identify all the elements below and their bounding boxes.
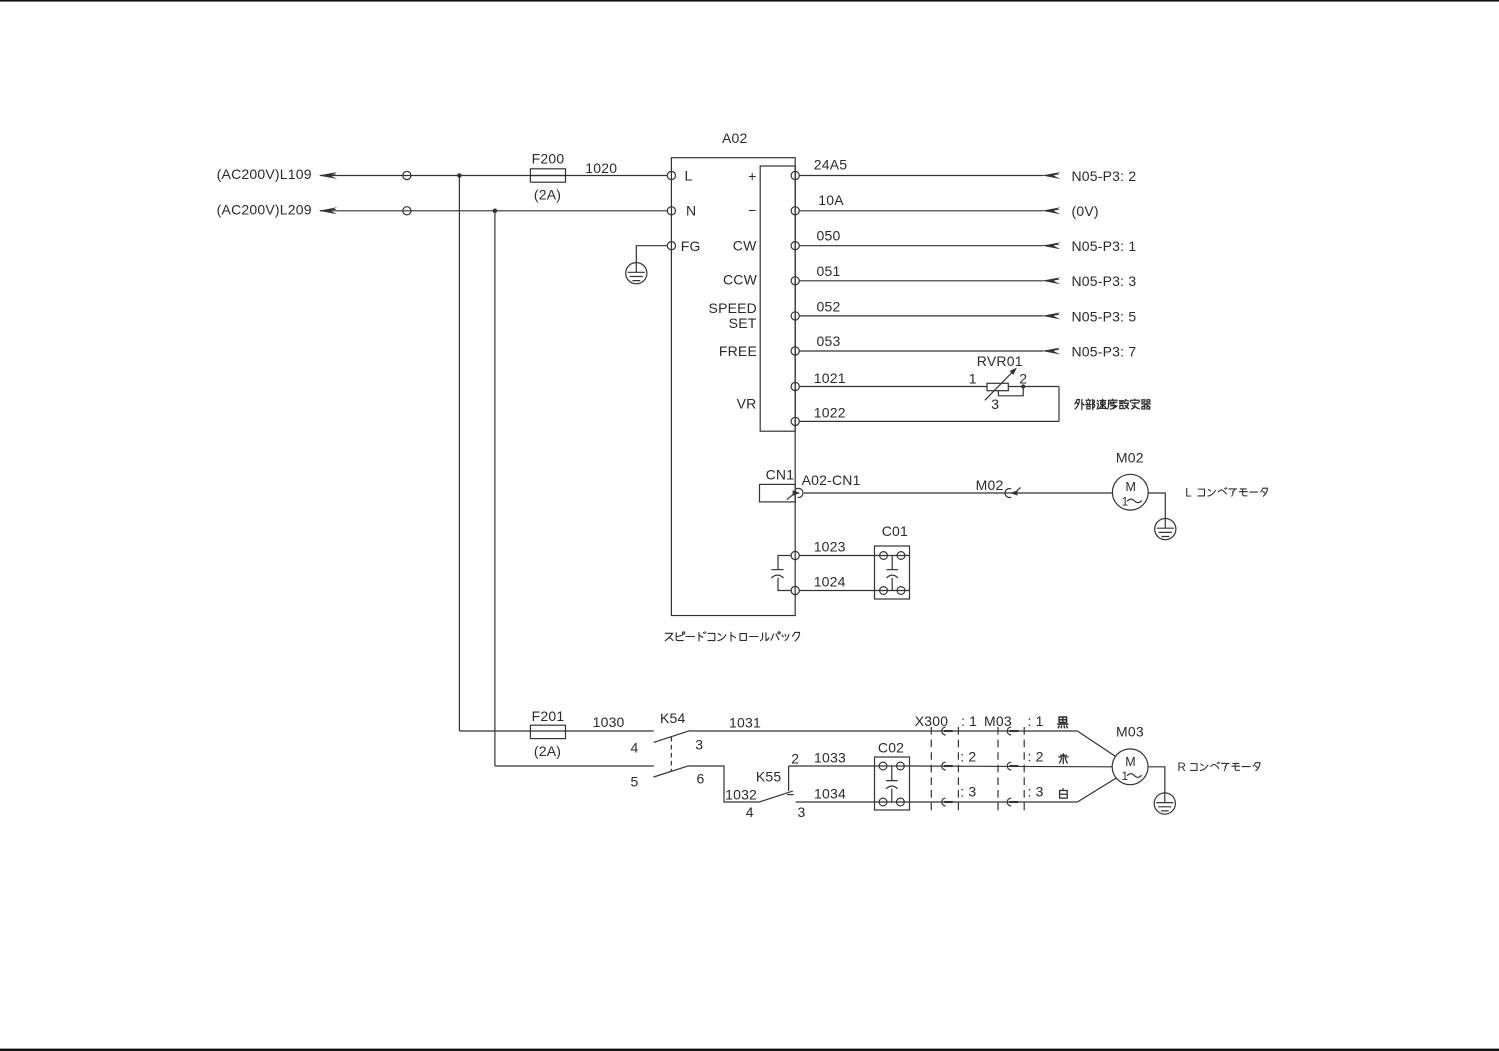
pin 053 (791, 333, 840, 355)
svg-text:L: L (685, 168, 693, 184)
svg-text:3: 3 (991, 396, 999, 412)
junction on L209 (493, 209, 498, 214)
relay contact K54 pole 5-6 (631, 766, 705, 790)
svg-text:051: 051 (817, 263, 841, 279)
svg-text:1020: 1020 (585, 160, 617, 176)
wire 1021 (799, 386, 987, 388)
svg-text:050: 050 (817, 228, 841, 244)
svg-text:SPEED: SPEED (709, 300, 757, 316)
wire 1022 (799, 420, 1059, 422)
svg-text:1021: 1021 (814, 370, 846, 386)
svg-text:VR: VR (737, 396, 757, 412)
pin N (667, 203, 696, 219)
svg-text:CN1: CN1 (766, 467, 795, 483)
svg-text:N05-P3: 1: N05-P3: 1 (1072, 238, 1137, 254)
capacitor C02 (875, 740, 910, 810)
relay contact K55 (746, 751, 806, 821)
connector pin M03:3 (1007, 798, 1018, 806)
svg-text:N05-P3: 2: N05-P3: 2 (1072, 168, 1137, 184)
ground at FG (626, 263, 647, 284)
svg-text:SET: SET (729, 315, 757, 331)
label SPEED SET (709, 300, 757, 331)
svg-text:R: R (1178, 762, 1186, 774)
connector plug symbol at CN1 (787, 488, 803, 499)
svg-text:(AC200V)L109: (AC200V)L109 (217, 166, 312, 182)
svg-text:1032: 1032 (725, 787, 757, 803)
pin 1021 (791, 370, 846, 391)
svg-text:K55: K55 (756, 769, 782, 785)
svg-text:FREE: FREE (719, 343, 757, 359)
connector CN1 (760, 467, 796, 502)
junction on L109 (457, 173, 462, 178)
wire L209 (320, 210, 667, 212)
svg-text:(AC200V)L209: (AC200V)L209 (217, 202, 312, 218)
svg-text:1024: 1024 (814, 573, 846, 589)
label external speed setter (kanji) (1075, 399, 1151, 409)
svg-text:24A5: 24A5 (814, 157, 848, 173)
svg-text:6: 6 (697, 770, 705, 786)
wire 1024 (799, 590, 874, 592)
connector pin M03:2 (1007, 762, 1018, 770)
wire 1033 to motor (910, 765, 1113, 768)
wire pot pin2 to right (1008, 386, 1059, 388)
wire 050 (799, 242, 1060, 249)
svg-text:10A: 10A (818, 192, 844, 208)
svg-text:RVR01: RVR01 (977, 353, 1023, 369)
wire 052 (799, 312, 1060, 319)
fuse F201 (530, 708, 565, 759)
wire right vertical 1021 to 1022 (1058, 387, 1060, 422)
pin 050 (791, 228, 840, 250)
svg-text:5: 5 (631, 773, 639, 789)
svg-text:2: 2 (791, 751, 799, 767)
node (AC200V)L209 (217, 202, 338, 218)
wire vertical from L209 junction down to K54 row (494, 211, 496, 766)
svg-text:M: M (1125, 480, 1135, 494)
svg-text:C02: C02 (878, 740, 904, 756)
mechanical link K54 (dashed) (670, 737, 672, 771)
svg-text:K54: K54 (660, 710, 686, 726)
svg-text:−: − (748, 202, 756, 218)
wire diagonal 1034 into motor (1077, 778, 1116, 802)
svg-text:3: 3 (798, 804, 806, 820)
label L conveyor motor (1185, 487, 1267, 499)
svg-text:M02: M02 (1116, 449, 1144, 465)
capacitor inside A02 (771, 556, 791, 591)
svg-text:3: 3 (695, 736, 703, 752)
wiper jumper wire (998, 389, 1023, 396)
wire 1031 (690, 730, 1077, 732)
connector pin X300:1 (942, 727, 953, 735)
svg-text:M02: M02 (976, 477, 1004, 493)
svg-text:1: 1 (1122, 771, 1128, 783)
wire 1033 (789, 765, 875, 767)
svg-text:: 2: : 2 (1028, 749, 1044, 765)
svg-text:2: 2 (1019, 370, 1027, 386)
wire color label black (1058, 717, 1068, 728)
pin 1024 (791, 573, 846, 594)
svg-text:A02: A02 (722, 130, 748, 146)
connector X300 dashed boundary right (957, 727, 959, 813)
wire diagonal 1031 into motor (1077, 731, 1115, 756)
svg-text:(2A): (2A) (534, 186, 561, 202)
svg-text:+: + (748, 168, 756, 184)
svg-text:M03: M03 (984, 713, 1012, 729)
connector symbol mid M02 wire (1005, 487, 1021, 497)
svg-text:052: 052 (817, 299, 841, 315)
motor M03 (1112, 724, 1148, 785)
wire 1030 left segment (459, 730, 530, 732)
svg-text:CW: CW (733, 238, 757, 254)
ground at M02 (1155, 519, 1176, 540)
svg-text:N05-P3: 3: N05-P3: 3 (1072, 273, 1137, 289)
terminal circle on L109 (403, 171, 411, 179)
wire 10A (799, 207, 1060, 214)
svg-text:4: 4 (746, 804, 754, 820)
label R conveyor motor (1178, 762, 1260, 774)
pin L (667, 168, 692, 184)
connector X300 dashed boundary left (930, 727, 932, 813)
svg-text:N: N (686, 203, 696, 219)
wire 1023 (799, 555, 874, 557)
wire vertical from L109 junction down to F201 row (458, 176, 460, 732)
relay contact K54 pole 4-3 (631, 710, 704, 756)
op-amp A02 outer box (671, 158, 795, 616)
connector M03 dashed boundary right (1023, 727, 1025, 813)
fuse F200 (530, 150, 565, 202)
junction at pot pin2 (1021, 384, 1025, 388)
potentiometer RVR01 (969, 353, 1027, 412)
pin 1023 (791, 538, 846, 559)
svg-text:1031: 1031 (729, 715, 761, 731)
svg-text:M03: M03 (1116, 724, 1144, 740)
pin 052 (791, 299, 840, 321)
pin 1022 (791, 405, 846, 426)
svg-text:1: 1 (1122, 496, 1128, 508)
svg-text:X300: X300 (915, 713, 949, 729)
A02 inner terminal box (760, 166, 795, 431)
wire color label white (1060, 789, 1068, 799)
svg-text:(2A): (2A) (534, 743, 561, 759)
svg-text:053: 053 (817, 333, 841, 349)
pin 051 (791, 263, 840, 285)
page bottom border (0, 1049, 1499, 1051)
wire M02 motor to ground (1148, 493, 1165, 519)
svg-text:F201: F201 (532, 708, 565, 724)
wire FG to ground (636, 246, 667, 263)
page top border (0, 0, 1499, 2)
connector pin M03:1 (1007, 727, 1018, 735)
wire 1030 to K54 (566, 730, 654, 732)
wire 053 (799, 348, 1060, 355)
pin 24A5 (791, 157, 847, 180)
wire color label red (1059, 754, 1068, 764)
pin FG (667, 238, 700, 254)
wire 24A5 (799, 172, 1060, 179)
capacitor C01 (875, 523, 910, 599)
wire K54-6 jog down to 1032 (689, 766, 759, 802)
wire M02 (804, 492, 1112, 494)
connector pin X300:3 (942, 798, 953, 806)
connector M03 dashed boundary left (997, 727, 999, 813)
terminal circle on L209 (403, 207, 411, 215)
svg-text:1033: 1033 (814, 749, 846, 765)
svg-text:4: 4 (631, 740, 639, 756)
svg-text:1034: 1034 (814, 786, 846, 802)
wire 1034 (796, 801, 875, 803)
svg-text:L: L (1185, 487, 1192, 499)
wire K54 row2 left (495, 765, 654, 767)
svg-text:: 1: : 1 (961, 713, 977, 729)
wire 1034 to connector area (910, 801, 1078, 803)
svg-text:1022: 1022 (814, 405, 846, 421)
wire 051 (799, 277, 1060, 284)
svg-text:F200: F200 (532, 150, 565, 166)
svg-text:M: M (1125, 755, 1135, 769)
motor M02 (1112, 449, 1148, 510)
wire L109 (320, 175, 667, 177)
svg-text:N05-P3: 7: N05-P3: 7 (1072, 343, 1137, 359)
label speed control pack (kana) (665, 632, 799, 641)
svg-text:: 3: : 3 (1028, 784, 1044, 800)
svg-text:1: 1 (969, 370, 977, 386)
ground at M03 (1154, 793, 1175, 814)
svg-text:C01: C01 (882, 523, 908, 539)
svg-text:: 2: : 2 (960, 749, 976, 765)
pin 10A (791, 192, 844, 215)
svg-text:: 1: : 1 (1028, 713, 1044, 729)
node (AC200V)L109 (217, 166, 338, 182)
svg-text:1030: 1030 (593, 714, 625, 730)
svg-text:: 3: : 3 (960, 784, 976, 800)
svg-text:1023: 1023 (814, 538, 846, 554)
svg-text:(0V): (0V) (1072, 203, 1099, 219)
svg-text:CCW: CCW (723, 271, 758, 287)
svg-text:N05-P3: 5: N05-P3: 5 (1072, 308, 1137, 324)
svg-text:FG: FG (681, 238, 701, 254)
wire M03 motor to ground (1148, 767, 1165, 793)
svg-text:A02-CN1: A02-CN1 (802, 472, 861, 488)
connector pin X300:2 (942, 762, 953, 770)
